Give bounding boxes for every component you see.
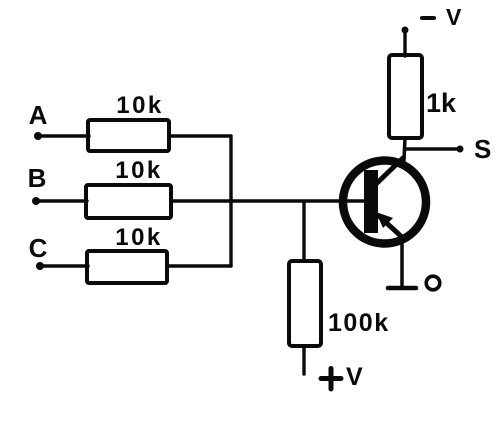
- label O: [426, 276, 440, 290]
- resistor R5 1k: [389, 55, 422, 138]
- node B terminal: [32, 197, 40, 205]
- svg-text:C: C: [29, 233, 48, 263]
- node S arrow: [457, 146, 464, 153]
- node -V terminal: [402, 27, 409, 34]
- svg-text:V: V: [446, 4, 462, 30]
- resistor R2 10k: [86, 185, 171, 218]
- node A terminal: [34, 132, 42, 140]
- svg-text:V: V: [346, 363, 363, 391]
- svg-text:10k: 10k: [115, 224, 163, 251]
- node C terminal: [36, 262, 44, 270]
- wire node to R4: [302, 201, 305, 261]
- wire emitter to ground: [400, 240, 404, 288]
- wire C to R3: [42, 264, 88, 267]
- svg-text:10k: 10k: [116, 92, 164, 119]
- label +V: [321, 369, 341, 390]
- resistor R3 10k: [87, 251, 167, 283]
- wire R3 to bus: [167, 264, 231, 267]
- resistor R1 10k: [88, 120, 169, 151]
- svg-text:S: S: [474, 134, 491, 164]
- svg-text:10k: 10k: [115, 157, 163, 184]
- svg-text:1k: 1k: [426, 88, 457, 118]
- label -V: [422, 16, 434, 20]
- svg-text:100k: 100k: [328, 309, 390, 337]
- wire -V to R5: [403, 31, 406, 56]
- svg-text:A: A: [29, 100, 48, 130]
- wire output S line: [405, 147, 457, 150]
- svg-text:B: B: [28, 163, 47, 193]
- wire R1 to bus: [169, 134, 231, 137]
- transistor Q1: [343, 158, 426, 244]
- wire summing bus: [229, 136, 232, 266]
- wire B to R2: [38, 199, 87, 202]
- wire R5 to collector: [404, 138, 405, 160]
- wire R4 to +V: [302, 346, 305, 374]
- resistor R4 100k: [289, 261, 321, 346]
- wire R2 to transistor base: [171, 199, 364, 202]
- ground: [388, 286, 416, 291]
- wire A to R1: [40, 134, 89, 137]
